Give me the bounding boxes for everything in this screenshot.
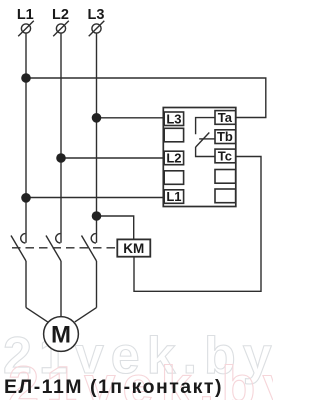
svg-text:L2: L2 (52, 7, 69, 23)
svg-text:KM: KM (123, 241, 144, 256)
svg-text:Tc: Tc (218, 149, 232, 164)
svg-text:L1: L1 (166, 189, 181, 204)
svg-text:L3: L3 (88, 7, 105, 23)
svg-text:ЕЛ-11М (1п-контакт): ЕЛ-11М (1п-контакт) (4, 376, 223, 398)
svg-text:M: M (51, 322, 71, 349)
svg-text:L2: L2 (166, 151, 181, 166)
svg-text:Tb: Tb (217, 129, 233, 144)
svg-text:L3: L3 (166, 111, 181, 126)
svg-text:L1: L1 (17, 7, 34, 23)
svg-text:Ta: Ta (218, 110, 233, 125)
